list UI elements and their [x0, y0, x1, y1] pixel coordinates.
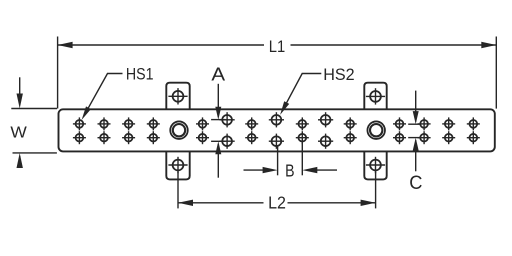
dimension L2 arrowhead left — [178, 200, 193, 206]
dimension C arrowhead lower — [413, 138, 419, 151]
dimension L2 extension line right — [375, 172, 377, 209]
dimension A arrowhead upper — [215, 107, 221, 120]
terminal hole column 8 top (small HS1 size) — [245, 117, 258, 130]
leader line HS1 — [84, 74, 123, 116]
hole in bottom-left tab — [168, 157, 187, 173]
hole in bottom-right tab — [366, 157, 385, 173]
dimension B arrowhead right — [302, 167, 317, 173]
terminal hole column 1 top (small HS1 size) — [73, 117, 86, 130]
dimension B line right — [317, 169, 338, 171]
dimension C tick lower — [408, 137, 421, 139]
mounting tab bottom-right — [364, 151, 386, 179]
terminal hole column 9 bottom (large HS2 size) — [269, 134, 284, 149]
svg-text:C: C — [409, 173, 422, 194]
svg-text:L1: L1 — [269, 38, 285, 56]
terminal hole column 3 top (small HS1 size) — [122, 117, 135, 130]
terminal hole column 16 bottom (small HS1 size) — [442, 131, 455, 144]
dimension C arrowhead upper — [413, 111, 419, 124]
dimension B line left — [244, 169, 265, 171]
dimension L1 arrowhead left — [58, 42, 73, 48]
dimension L2 extension line left — [177, 172, 179, 209]
mounting tab bottom-left — [166, 151, 189, 179]
dimension B extension line right — [301, 142, 303, 175]
mounting tab HS top-left — [166, 83, 189, 110]
dimension W arrow line bottom — [19, 156, 21, 167]
dimension W extension line top — [11, 108, 57, 110]
large mounting hole right (double circle) — [367, 121, 385, 139]
leader line HS2 — [282, 74, 321, 111]
svg-text:L2: L2 — [268, 192, 286, 212]
dimension L1 line left segment — [58, 44, 264, 46]
hole in top-right tab — [366, 88, 385, 104]
dimension L1 arrowhead right — [481, 42, 496, 48]
terminal hole column 11 top (large HS2 size) — [318, 112, 333, 127]
terminal hole column 2 bottom (small HS1 size) — [98, 131, 111, 144]
terminal hole column 15 bottom (small HS1 size) — [418, 131, 431, 144]
svg-text:A: A — [211, 63, 225, 84]
dimension A arrow line upper — [217, 84, 219, 117]
svg-text:HS2: HS2 — [323, 65, 354, 84]
dimension W extension line bottom — [13, 152, 57, 154]
dimension A arrow line lower — [217, 144, 219, 178]
terminal hole column 14 top (small HS1 size) — [393, 117, 406, 130]
leader arrowhead HS2 — [280, 101, 289, 115]
dimension A tick upper — [211, 119, 226, 121]
terminal hole column 10 bottom (small HS1 size) — [296, 131, 309, 144]
dimension W arrowhead top — [17, 94, 23, 109]
terminal hole column 3 bottom (small HS1 size) — [122, 131, 135, 144]
dimension B arrowhead left — [263, 167, 278, 173]
terminal hole column 12 top (small HS1 size) — [344, 117, 357, 130]
terminal hole column 14 bottom (small HS1 size) — [393, 131, 406, 144]
dimension B extension line left — [277, 145, 279, 175]
terminal hole column 7 top (large HS2 size) — [220, 112, 235, 127]
terminal hole column 6 top (small HS1 size) — [196, 117, 209, 130]
mounting tab top-right — [364, 83, 386, 110]
dimension L2 line left segment — [178, 202, 264, 204]
terminal hole column 11 bottom (large HS2 size) — [318, 134, 333, 149]
terminal hole column 4 top (small HS1 size) — [147, 117, 160, 130]
terminal hole column 16 top (small HS1 size) — [442, 117, 455, 130]
dimension L1 extension line left — [57, 37, 59, 109]
terminal hole column 4 bottom (small HS1 size) — [147, 131, 160, 144]
terminal hole column 15 top (small HS1 size) — [418, 117, 431, 130]
busbar strip outline — [59, 109, 495, 151]
terminal hole column 2 top (small HS1 size) — [98, 117, 111, 130]
dimension A tick lower — [211, 140, 226, 142]
terminal hole column 7 bottom (large HS2 size) — [220, 134, 235, 149]
dimension C arrow line upper — [415, 91, 417, 122]
dimension C arrow line lower — [415, 140, 417, 171]
leader arrowhead HS1 — [82, 106, 91, 120]
terminal hole column 6 bottom (small HS1 size) — [196, 131, 209, 144]
terminal hole column 17 top (small HS1 size) — [467, 117, 480, 130]
dimension W arrow line top — [19, 77, 21, 105]
dimension L1 line right segment — [291, 44, 497, 46]
terminal hole column 9 top (large HS2 size) — [269, 112, 284, 127]
dimension L2 line right segment — [288, 202, 376, 204]
terminal hole column 12 bottom (small HS1 size) — [344, 131, 357, 144]
terminal hole column 17 bottom (small HS1 size) — [467, 131, 480, 144]
terminal hole column 1 bottom (small HS1 size) — [73, 131, 86, 144]
dimension C tick upper — [408, 123, 421, 125]
svg-text:W: W — [10, 125, 27, 142]
hole in top-left tab — [168, 88, 187, 104]
large mounting hole left (double circle) — [170, 121, 188, 139]
dimension L1 extension line right — [495, 37, 497, 109]
dimension L2 arrowhead right — [361, 200, 376, 206]
terminal hole column 10 top (small HS1 size) — [296, 117, 309, 130]
svg-text:B: B — [285, 162, 294, 181]
terminal hole column 8 bottom (small HS1 size) — [245, 131, 258, 144]
svg-text:HS1: HS1 — [126, 64, 154, 83]
dimension W arrowhead bottom — [17, 153, 23, 168]
dimension A arrowhead lower — [215, 141, 221, 154]
